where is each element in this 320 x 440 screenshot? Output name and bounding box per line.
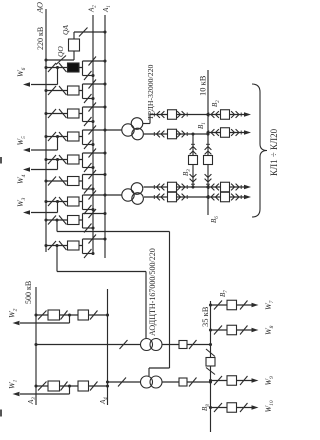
arrow line W1 bbox=[13, 392, 20, 396]
breaker bbox=[68, 216, 80, 225]
feeder 35kV line W7 bbox=[209, 303, 212, 306]
bus disconnector to A2 bbox=[83, 75, 94, 77]
svg-text:10 кВ: 10 кВ bbox=[198, 75, 208, 96]
svg-text:W1: W1 bbox=[8, 379, 19, 389]
arrow cable feeder bbox=[244, 130, 251, 134]
arrow line W2 bbox=[13, 321, 20, 325]
line W5 tap bbox=[56, 135, 59, 138]
svg-text:В1: В1 bbox=[197, 122, 207, 129]
breaker bbox=[48, 310, 60, 320]
withdrawable breaker cell bbox=[144, 133, 208, 135]
wire stub to bus disconnectors bbox=[82, 239, 84, 254]
breaker bbox=[227, 403, 237, 413]
wire stub to bus disconnectors bbox=[82, 107, 84, 122]
bay 500kV line W2 bbox=[34, 313, 37, 316]
disconnector (line) bbox=[59, 86, 67, 95]
feeder 35kV line W8 bbox=[209, 328, 212, 331]
sectional cell line (upper) bbox=[192, 134, 194, 187]
disconnector (bypass) bbox=[48, 241, 56, 250]
feeder cell 10kV (cable line) bbox=[206, 131, 209, 134]
line W1 tap bbox=[68, 384, 71, 387]
line W4 tap bbox=[56, 158, 59, 161]
svg-text:АО: АО bbox=[35, 2, 45, 14]
disconnector (bypass) bbox=[48, 155, 56, 164]
disconnector (bypass) bbox=[48, 132, 56, 141]
bus A4 (500kV node) bbox=[107, 289, 109, 405]
svg-text:W8: W8 bbox=[264, 325, 275, 335]
breaker bbox=[227, 325, 237, 335]
breaker (closed, filled) bbox=[68, 63, 80, 72]
bus A3 (500kV node) bbox=[35, 287, 37, 405]
arrow cable feeder bbox=[244, 195, 251, 199]
bay 220kV at x=194.5 bbox=[44, 244, 47, 247]
breaker bbox=[68, 109, 80, 118]
breaker bbox=[68, 241, 80, 250]
bus disconnector to A1 bbox=[83, 174, 106, 176]
bay 220kV at x=372.5 bbox=[44, 66, 47, 69]
sectional breaker 35kV bbox=[206, 349, 215, 357]
bus disconnector to A2 bbox=[83, 227, 94, 229]
transformer T2 split secondary windings bbox=[131, 183, 143, 195]
bracket KL1-KL20 bbox=[252, 84, 267, 217]
svg-text:А2: А2 bbox=[88, 5, 98, 13]
wire stub to bus disconnectors bbox=[82, 214, 84, 229]
scan mark 2 bbox=[0, 410, 2, 417]
bus A2 (220kV main busbar A2) bbox=[92, 15, 94, 255]
svg-text:500 кВ: 500 кВ bbox=[24, 281, 33, 304]
arrow cable feeder bbox=[244, 112, 251, 116]
bus disconnector to A2 bbox=[83, 121, 94, 123]
breaker bbox=[68, 177, 80, 186]
svg-text:W9: W9 bbox=[264, 376, 275, 386]
svg-text:В7: В7 bbox=[219, 290, 229, 297]
autotransformer AT1 (AODCTN-167000/500/220) bbox=[141, 339, 153, 351]
breaker bbox=[227, 376, 237, 386]
feeder cell 10kV (cable line) bbox=[206, 113, 209, 116]
disconnector (bypass) bbox=[48, 63, 56, 72]
arrow line W7 bbox=[252, 303, 259, 307]
breaker QA bbox=[69, 39, 80, 51]
svg-text:АОДЦТН-167000/500/220: АОДЦТН-167000/500/220 bbox=[148, 248, 157, 336]
transformer T1 split secondary windings bbox=[131, 118, 143, 130]
line W3 tap bbox=[56, 200, 59, 203]
svg-text:В6: В6 bbox=[210, 216, 220, 223]
bus 10kV bbox=[207, 70, 209, 215]
svg-text:35 кВ: 35 кВ bbox=[200, 306, 210, 327]
wire to autotransformer 220kV side bbox=[55, 218, 58, 221]
breaker bbox=[68, 86, 80, 95]
breaker bbox=[68, 132, 80, 141]
arrow line W10 bbox=[252, 405, 259, 409]
breaker bbox=[78, 310, 89, 320]
wire QA to AO bus bbox=[73, 51, 75, 60]
arrow line W5 bbox=[23, 148, 30, 152]
feeder 35kV line W9 bbox=[209, 379, 212, 382]
bus disconnector to A1 bbox=[83, 83, 106, 85]
bus disconnector to A2 bbox=[83, 253, 94, 255]
disconnector (line) bbox=[59, 155, 67, 164]
arrow cable feeder bbox=[244, 185, 251, 189]
bus disconnector to A2 bbox=[83, 144, 94, 146]
bus disconnector to A1 bbox=[83, 238, 106, 240]
bus disconnector to A1 bbox=[83, 129, 123, 131]
sectional breaker B3 bbox=[190, 147, 197, 150]
disconnector (line) bbox=[59, 63, 67, 72]
wire AT1 35kV output bbox=[163, 344, 211, 346]
feeder cell 10kV (cable line) bbox=[206, 185, 209, 188]
bay 220kV at x=259 bbox=[44, 179, 47, 182]
disconnector (line) bbox=[59, 132, 67, 141]
breaker bbox=[227, 300, 237, 310]
scan mark 1 bbox=[0, 157, 2, 164]
bus disconnector to A2 bbox=[83, 167, 94, 169]
arrow line W8 bbox=[252, 328, 259, 332]
transformer T2 primary winding bbox=[122, 189, 134, 201]
bus AO (220kV bypass busbar) bbox=[45, 9, 47, 252]
svg-text:220 кВ: 220 кВ bbox=[36, 27, 45, 50]
disconnector (bypass) bbox=[48, 86, 56, 95]
sectional breaker B4 (on bus) bbox=[205, 147, 212, 150]
svg-text:W4: W4 bbox=[16, 174, 27, 184]
wire stub to bus disconnectors bbox=[82, 61, 84, 76]
bus disconnector to A1 bbox=[83, 194, 123, 196]
breaker bbox=[78, 381, 89, 391]
svg-text:W5: W5 bbox=[16, 136, 27, 146]
disconnector (bypass) bbox=[48, 216, 56, 225]
breaker bbox=[68, 155, 80, 164]
bus disconnector to A1 bbox=[83, 106, 106, 108]
bus disconnector to A1 bbox=[83, 152, 106, 154]
wire T1 secondary A to cell bbox=[143, 123, 150, 125]
disconnector (line) bbox=[59, 216, 67, 225]
disconnector (bypass) bbox=[48, 197, 56, 206]
autotransformer AT2 (AODCTN-167000/500/220) bbox=[141, 376, 153, 388]
svg-text:А1: А1 bbox=[102, 5, 112, 13]
bus disconnector to A2 bbox=[83, 209, 94, 211]
bus disconnector to A2 bbox=[83, 98, 94, 100]
autotransformer AT2 500kV feed bbox=[106, 380, 109, 383]
bay 220kV at x=280.5 bbox=[44, 158, 47, 161]
wire to autotransformer 220kV side bbox=[55, 244, 58, 247]
svg-text:КЛ1 ÷ КЛ20: КЛ1 ÷ КЛ20 bbox=[269, 128, 279, 176]
bay 220kV at x=326.5 bbox=[44, 112, 47, 115]
svg-text:ТРДН-32000/220: ТРДН-32000/220 bbox=[146, 64, 155, 120]
bay 220kV at x=220 bbox=[44, 218, 47, 221]
breaker bbox=[68, 197, 80, 206]
bus disconnector to A2 bbox=[83, 188, 94, 190]
wire AT2 35kV output bbox=[163, 381, 211, 383]
disconnector (line) bbox=[59, 177, 67, 186]
wire stub to bus disconnectors bbox=[82, 153, 84, 168]
breaker bbox=[48, 381, 60, 391]
disconnector (line) bbox=[59, 241, 67, 250]
wire stub to bus disconnectors bbox=[82, 84, 84, 99]
wire AT2 220kV connection bbox=[57, 231, 170, 233]
withdrawable breaker cell bbox=[144, 186, 209, 188]
arrow line W4 bbox=[23, 167, 30, 171]
bay QA bus coupler bbox=[74, 31, 105, 33]
bay 220kV at x=303.5 bbox=[44, 135, 47, 138]
svg-text:В2: В2 bbox=[211, 100, 221, 107]
breaker AT2 35kV bbox=[179, 378, 187, 386]
svg-text:W6: W6 bbox=[16, 67, 27, 77]
bay 220kV at x=349.5 bbox=[44, 89, 47, 92]
feeder cell 10kV (cable line) bbox=[206, 195, 209, 198]
transformer T1 primary winding bbox=[122, 124, 134, 136]
breaker AT1 35kV bbox=[179, 341, 187, 349]
arrow line W6 bbox=[23, 82, 30, 86]
bus disconnector to A1 bbox=[83, 60, 106, 62]
svg-text:QA: QA bbox=[61, 25, 70, 35]
line W6 tap bbox=[56, 66, 59, 69]
feeder 35kV line W10 bbox=[209, 406, 212, 409]
svg-text:W7: W7 bbox=[264, 300, 275, 310]
bay 500kV line W1 bbox=[34, 384, 37, 387]
svg-text:QO: QO bbox=[56, 46, 65, 57]
line W2 tap bbox=[68, 313, 71, 316]
svg-text:W2: W2 bbox=[8, 308, 19, 318]
wire stub to bus disconnectors bbox=[82, 130, 84, 145]
wire stub to bus disconnectors bbox=[82, 195, 84, 210]
wire stub to bus disconnectors bbox=[82, 175, 84, 190]
bus disconnector to A1 bbox=[83, 213, 106, 215]
autotransformer AT1 500kV feed bbox=[34, 343, 37, 346]
bus 35kV bbox=[210, 301, 212, 432]
disconnector (bypass) bbox=[48, 177, 56, 186]
bay 220kV at x=238.5 bbox=[44, 200, 47, 203]
bus A1 (220kV main busbar A1) bbox=[104, 15, 106, 258]
disconnector (line) bbox=[59, 109, 67, 118]
svg-text:W3: W3 bbox=[16, 197, 27, 207]
arrow line W3 bbox=[23, 210, 30, 214]
withdrawable breaker cell bbox=[150, 114, 208, 116]
withdrawable breaker cell bbox=[144, 196, 208, 198]
arrow line W9 bbox=[252, 378, 259, 382]
wire AT1 220kV connection bbox=[57, 271, 146, 273]
disconnector (bypass) bbox=[48, 109, 56, 118]
disconnector (line) bbox=[59, 197, 67, 206]
svg-text:W10: W10 bbox=[264, 400, 275, 412]
